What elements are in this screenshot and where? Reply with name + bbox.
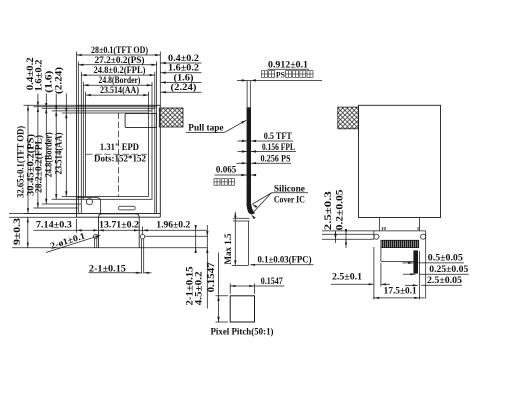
dim Max 1.5 (234, 212, 236, 265)
dim row 27.2&#177;0.2(PS) (78, 64, 156, 66)
svg-text:28±0.1(TFT OD): 28±0.1(TFT OD) (91, 45, 148, 55)
svg-text:0.2±0.05: 0.2±0.05 (335, 189, 345, 231)
svg-text:24.8(Border): 24.8(Border) (99, 75, 141, 85)
svg-text:24.8±0.2(FPL): 24.8±0.2(FPL) (94, 65, 146, 75)
rear stiffener black bar (413, 250, 418, 273)
rear connector block (381, 240, 419, 247)
svg-text:PS: PS (276, 70, 286, 79)
rear left dim 0.2±0.05 (345, 231, 347, 248)
svg-text:23.514(AA): 23.514(AA) (100, 85, 139, 95)
front view active area rect (AA) (86, 113, 149, 196)
vertical dim 4.5±0.2 (206, 225, 208, 309)
svg-text:Cover IC: Cover IC (274, 194, 305, 204)
rear view body (359, 105, 441, 217)
bottom dim line y=230.3 (33, 229, 206, 231)
svg-text:1.96±0.2: 1.96±0.2 (156, 220, 191, 230)
dashed vertical centerline (118, 113, 120, 197)
svg-text:0.4±0.2: 0.4±0.2 (168, 53, 200, 63)
extension module left edge down (76, 219, 78, 233)
ledge step outline (77, 198, 101, 214)
extension right hole top (142, 227, 144, 235)
extension line at glass bottom 217.2 (9, 216, 77, 218)
svg-text:2.5±0.05: 2.5±0.05 (427, 275, 463, 285)
svg-text:0.156 FPL: 0.156 FPL (262, 142, 295, 152)
offset label (2.24) (161, 91, 202, 93)
front view Border rect (83, 111, 152, 199)
bottom extension lines to left stack (24, 213, 77, 215)
svg-text:2.5±0.3: 2.5±0.3 (323, 191, 333, 231)
svg-text:9±0.3: 9±0.3 (12, 217, 22, 245)
top extension lines to left stack (24, 104, 77, 106)
long extension line tail bottom (12, 247, 208, 249)
tail slot lines right hole + extension (141, 239, 143, 274)
svg-text:0.1547: 0.1547 (206, 262, 216, 293)
left dim 32.65&#177;0.1(TFT OD) (27, 105, 29, 213)
pull tape attach rect inside glass (125, 113, 157, 127)
dim row 24.8&#177;0.2(FPL) (81, 74, 155, 76)
svg-text:0.912±0.1: 0.912±0.1 (268, 60, 309, 70)
svg-text:17.5±0.1: 17.5±0.1 (384, 286, 418, 296)
dim row 23.514(AA) (86, 94, 149, 96)
front view PS rect (78, 107, 156, 213)
pixel dim top 0.1547 (229, 283, 231, 293)
FPC tail outline (99, 214, 140, 248)
left dim 28.2&#177;0.2(FPL) (45, 108, 47, 204)
svg-text:Silicone: Silicone (274, 183, 305, 193)
extension line at TFT bottom 213.5 long (9, 213, 77, 215)
svg-text:28.2±0.2(FPL): 28.2±0.2(FPL) (34, 135, 44, 193)
svg-text:32.65±0.1(TFT OD): 32.65±0.1(TFT OD) (15, 126, 25, 198)
left dim 23.514(AA) (65, 113, 67, 196)
dim row 28&#177;0.1(TFT OD) (77, 54, 161, 56)
svg-text:0.5 TFT: 0.5 TFT (264, 131, 292, 141)
rear FPC below connector (380, 248, 382, 262)
diagonal leader 2-ø1±0.1 (46, 235, 101, 252)
svg-text:0.25±0.05: 0.25±0.05 (429, 264, 469, 274)
svg-text:1.6±0.2: 1.6±0.2 (33, 59, 43, 92)
dim row 24.8(Border) (83, 84, 152, 86)
dashed horizontal centerline (86, 153, 148, 155)
pull tape thin section (246, 81, 248, 107)
section bottom bend (247, 204, 256, 214)
tail hole left (94, 234, 98, 238)
svg-text:4.5±0.2: 4.5±0.2 (194, 271, 204, 306)
dim line to tape top (237, 79, 322, 81)
offset label 1.6&#177;0.2 (161, 72, 202, 74)
rear extension lines to left (322, 230, 374, 232)
offset label (1.6) (161, 81, 202, 83)
svg-text:1.31″ EPD: 1.31″ EPD (100, 142, 139, 152)
svg-text:0.256 PS: 0.256 PS (261, 153, 291, 163)
rear view FPC legs (379, 218, 381, 231)
rear view pull tape hatch (338, 107, 359, 129)
left dim 24.8(Border) (55, 111, 57, 199)
left dim 30.45&#177;0.2(PS) (37, 107, 39, 208)
vertical dim 2-1±0.15 right of tail (195, 225, 197, 252)
extension line hole2 level (145, 235, 208, 237)
rear left dim 2.5±0.3 (335, 231, 337, 243)
svg-text:Pull tape: Pull tape (188, 123, 223, 133)
svg-text:10: 10 (381, 226, 387, 231)
svg-text:13.71±0.2: 13.71±0.2 (99, 220, 140, 230)
svg-text:0.5±0.05: 0.5±0.05 (428, 253, 464, 263)
front view FPL rect (81, 108, 155, 213)
svg-text:(2.24): (2.24) (171, 82, 197, 92)
dim 9±0.3 vertical (27, 217, 29, 248)
svg-text:2.5±0.1: 2.5±0.1 (332, 271, 363, 281)
pixel pitch square (230, 296, 254, 322)
front view outer glass rect (TFT OD) (77, 105, 161, 213)
section FPC vertical (247, 221, 249, 265)
svg-text:23.514(AA): 23.514(AA) (54, 133, 64, 175)
svg-text:0.1±0.03(FPC): 0.1±0.03(FPC) (258, 254, 312, 264)
front view pull tape hatch (159, 108, 183, 127)
svg-text:(1.6): (1.6) (43, 71, 53, 93)
svg-text:7.14±0.3: 7.14±0.3 (36, 220, 73, 230)
arrowheads bottom dim row (77, 229, 82, 231)
tail slot lines left hole (94, 239, 96, 248)
pixel dim left 0.1547 (216, 295, 229, 297)
svg-text:0.1547: 0.1547 (261, 276, 283, 286)
alignment slot in ledge (119, 206, 136, 210)
svg-text:0.065: 0.065 (216, 165, 237, 175)
svg-text:Dots:152*152: Dots:152*152 (94, 153, 146, 163)
section main stack bar (247, 107, 251, 206)
mounting hole left in ledge (86, 199, 92, 205)
svg-text:(1.6): (1.6) (174, 72, 194, 82)
svg-text:27.2±0.2(PS): 27.2±0.2(PS) (95, 55, 145, 65)
svg-text:(2.24): (2.24) (53, 67, 63, 94)
svg-text:1.6±0.2: 1.6±0.2 (168, 63, 200, 73)
svg-text:2-1±0.15: 2-1±0.15 (89, 263, 127, 273)
svg-text:Pixel Pitch(50:1): Pixel Pitch(50:1) (211, 327, 274, 338)
rear right ext line (425, 239, 427, 299)
tail hole right (140, 234, 144, 238)
section foot lines (233, 217, 250, 219)
note excluding PS protective film (CJK) (262, 71, 268, 78)
rear corner circle left (374, 234, 379, 239)
rear corner circle right (421, 234, 426, 239)
svg-text:24.8(Border): 24.8(Border) (44, 132, 54, 177)
svg-text:Max 1.5: Max 1.5 (223, 233, 233, 264)
rear wide part top (374, 230, 426, 232)
front view bottom band (PS film bottom) (77, 216, 161, 218)
offset label 0.4&#177;0.2 (161, 62, 202, 64)
